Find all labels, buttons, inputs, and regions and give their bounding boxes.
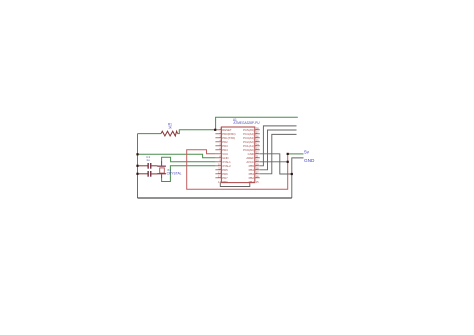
capacitor C2 [139, 171, 158, 177]
svg-text:PB0: PB0 [222, 180, 228, 184]
wire top green net from RESET junction to right stub [216, 117, 298, 130]
wire B PB4 stub to top right [260, 130, 297, 170]
wire GND rail to IC GND pin 8 [138, 154, 216, 158]
IC right pin stubs [255, 130, 260, 178]
wire C PB3 stub to top right [260, 134, 297, 173]
svg-text:PB1: PB1 [249, 180, 255, 184]
capacitor C1 [139, 155, 158, 169]
IC U1 ATMEGA328P-PU body [221, 127, 254, 183]
IC left pin numbers [218, 126, 221, 183]
IC right pin names [243, 128, 254, 184]
wire GND label stub and vertical [292, 158, 304, 198]
wire PB0 to PB1 bottom U [220, 183, 250, 187]
junction dot rail-GND wire [136, 153, 138, 155]
svg-text:15: 15 [256, 180, 259, 184]
IC left pin stubs [215, 130, 221, 178]
wire left GND rail green part [137, 134, 139, 174]
wire crystal bottom to XTAL2 pin 10 [162, 166, 216, 182]
wire AVCC to 5v rail [260, 161, 288, 163]
svg-text:ATMEGA328P-PU: ATMEGA328P-PU [233, 121, 260, 125]
wire resistor left to GND rail [138, 133, 162, 135]
svg-text:1k: 1k [168, 126, 172, 130]
wire right GND pin 22 to gnd vertical [260, 154, 292, 174]
wire 5v green stub [288, 153, 304, 155]
svg-text:1u: 1u [146, 158, 150, 162]
wire bottom GND run [138, 197, 292, 199]
wire crystal top to XTAL1 pin 9 [162, 157, 216, 162]
wire VCC red loop: pin7 around bottom to 5v rail [187, 150, 288, 190]
junction dot gnd-C [291, 173, 293, 175]
junction dot AVCC [287, 161, 289, 163]
junction dot 5v [287, 153, 289, 155]
IC left pin names [222, 128, 235, 184]
junction dot rail-C2 [136, 173, 138, 175]
junction dot RESET [214, 129, 216, 131]
wire RESET net: resistor right to pin 1 [178, 130, 216, 134]
resistor R1 [161, 131, 178, 136]
svg-text:GND: GND [304, 158, 315, 163]
crystal X1 [157, 161, 181, 178]
svg-text:5v: 5v [304, 149, 310, 154]
svg-text:CRYSTAL: CRYSTAL [167, 172, 182, 176]
wire A PB5 stub to top right [260, 126, 297, 166]
junction dot rail-C1 [136, 165, 138, 167]
IC right pin numbers [256, 126, 259, 183]
wire left GND rail gray part [137, 174, 139, 198]
